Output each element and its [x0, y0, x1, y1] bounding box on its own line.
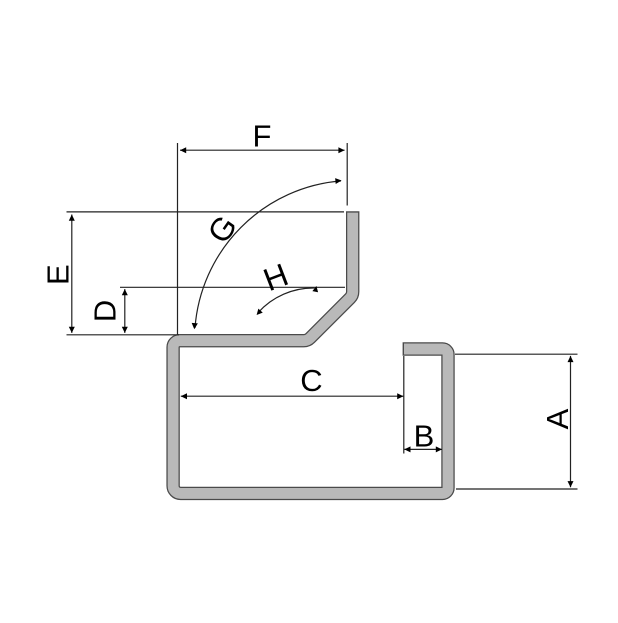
A top arrowhead [568, 356, 574, 362]
G top arrowhead [335, 178, 341, 184]
D dimension line [124, 289, 126, 333]
C dimension line [181, 395, 404, 397]
B left arrowhead [404, 446, 410, 452]
B dimension line [404, 448, 442, 450]
G angle arc [195, 181, 341, 328]
H right arrowhead [312, 286, 318, 292]
svg-text:F: F [253, 119, 272, 154]
svg-text:D: D [88, 300, 123, 322]
C left arrowhead [181, 393, 187, 399]
F right arrowhead [338, 147, 344, 153]
F left arrowhead [180, 147, 186, 153]
A dimension line [570, 356, 572, 487]
svg-text:C: C [300, 363, 322, 398]
F right extension line [346, 143, 348, 206]
profile outline (dark edge of bent sheet profile) [173, 211, 448, 493]
A bottom extension line [456, 488, 578, 490]
B extension line [403, 356, 405, 454]
D top arrowhead [122, 289, 128, 295]
E dimension line [71, 215, 73, 333]
svg-text:E: E [41, 264, 76, 285]
H angle arc [258, 288, 314, 313]
B right arrowhead [436, 446, 442, 452]
profile body (gray sheet metal) [173, 213, 448, 494]
G bottom arrowhead [192, 323, 198, 329]
A bottom arrowhead [568, 481, 574, 487]
H left arrowhead [257, 309, 263, 315]
svg-text:A: A [540, 408, 575, 429]
C right arrowhead [397, 393, 403, 399]
svg-text:B: B [414, 418, 435, 453]
D top extension line [120, 286, 345, 288]
E top extension line [67, 211, 345, 213]
D bottom arrowhead [122, 327, 128, 333]
F dimension line [180, 149, 345, 151]
E bottom extension line [67, 334, 180, 336]
A top extension line [455, 353, 578, 355]
E top arrowhead [69, 215, 75, 221]
F left extension line [177, 143, 179, 335]
E bottom arrowhead [69, 327, 75, 333]
